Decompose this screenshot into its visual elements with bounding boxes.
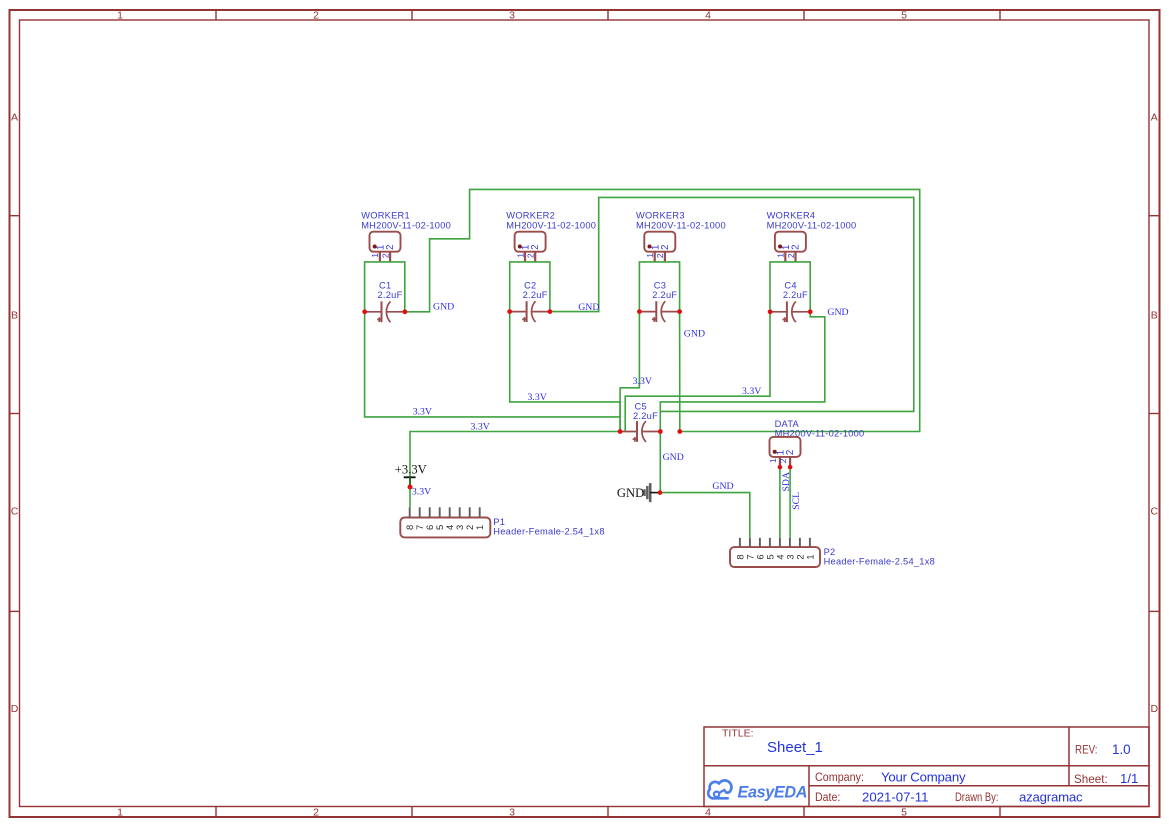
net label GND at P2 wire — [712, 481, 733, 492]
svg-text:Date:: Date: — [815, 790, 840, 804]
svg-text:C1: C1 — [379, 280, 391, 290]
svg-text:1: 1 — [117, 807, 123, 819]
svg-text:P2: P2 — [824, 547, 836, 557]
title block — [704, 727, 1149, 807]
svg-text:1: 1 — [768, 458, 778, 463]
wire GND net from C3 — [679, 312, 681, 432]
svg-text:Header-Female-2.54_1x8: Header-Female-2.54_1x8 — [493, 527, 604, 537]
svg-text:2: 2 — [785, 450, 796, 455]
power symbol +3.3V — [395, 463, 427, 487]
svg-text:C3: C3 — [654, 280, 666, 290]
net label GND at C5 — [663, 452, 684, 463]
net label GND at C4 — [827, 307, 848, 318]
svg-text:C5: C5 — [635, 402, 647, 412]
svg-text:2.2uF: 2.2uF — [633, 411, 658, 421]
svg-text:MH200V-11-02-1000: MH200V-11-02-1000 — [361, 221, 451, 231]
wire bus at WORKER4 pins — [770, 262, 810, 312]
svg-text:3.3V: 3.3V — [528, 392, 547, 403]
junction at C2 pin - — [548, 309, 553, 314]
junction at +3.3V node — [408, 485, 413, 490]
wire GND net from C5 to GND symbol and P2 pin 7 — [660, 432, 750, 538]
svg-text:GND: GND — [712, 481, 733, 492]
svg-text:Drawn By:: Drawn By: — [955, 790, 999, 804]
connector WORKER4 (MH200V-11-02-1000) — [767, 210, 857, 262]
net label 3.3V at C1 wire — [413, 407, 432, 418]
capacitor C2 2.2uF — [510, 280, 550, 322]
capacitor C5 2.2uF — [620, 402, 660, 442]
svg-text:2: 2 — [655, 253, 665, 258]
svg-text:Company:: Company: — [815, 770, 864, 784]
wire SCL from DATA pin 2 to P2 pin 3 — [789, 467, 791, 538]
svg-text:A: A — [11, 111, 18, 123]
wire bus at WORKER2 pins — [510, 262, 550, 312]
svg-text:5: 5 — [901, 807, 907, 819]
svg-text:WORKER3: WORKER3 — [636, 210, 685, 220]
junction at DATA pin 2 — [788, 465, 793, 470]
junction at DATA pin 1 — [778, 465, 783, 470]
svg-text:2.2uF: 2.2uF — [378, 290, 403, 300]
svg-text:B: B — [11, 309, 18, 321]
svg-text:2: 2 — [660, 244, 671, 249]
svg-text:2: 2 — [380, 253, 390, 258]
pin numbers of WORKER2 — [515, 244, 541, 258]
svg-text:1: 1 — [474, 525, 485, 530]
svg-text:Sheet:: Sheet: — [1074, 772, 1108, 786]
connector DATA (MH200V-11-02-1000) — [770, 419, 865, 467]
svg-text:C4: C4 — [784, 280, 796, 290]
pin numbers of P1 — [404, 525, 485, 530]
svg-text:4: 4 — [705, 807, 711, 819]
svg-text:3: 3 — [509, 807, 515, 819]
junction at C1 pin - — [403, 309, 408, 314]
svg-text:1: 1 — [776, 253, 786, 258]
svg-text:2: 2 — [786, 253, 796, 258]
wire 3.3V net from C3 — [620, 312, 639, 432]
svg-text:Your Company: Your Company — [881, 769, 966, 784]
svg-text:1/1: 1/1 — [1120, 771, 1138, 786]
net label 3.3V at C4 wire — [742, 386, 761, 397]
pin numbers of WORKER1 — [370, 244, 396, 258]
wire GND net from C4 — [660, 312, 825, 432]
capacitor C3 2.2uF — [639, 280, 679, 322]
svg-text:2: 2 — [526, 253, 536, 258]
net label 3.3V at P1 wire — [471, 421, 490, 432]
power symbol GND (ground) — [617, 483, 659, 502]
wire 3.3V net to P1 pin 8 — [410, 432, 620, 508]
EasyEDA logo — [708, 780, 807, 801]
svg-text:D: D — [1151, 703, 1159, 715]
svg-text:1: 1 — [645, 253, 655, 258]
wire 3.3V net from C1 — [365, 312, 620, 417]
wire GND net from C2 — [550, 197, 914, 411]
svg-text:3.3V: 3.3V — [742, 386, 761, 397]
svg-text:D: D — [11, 703, 19, 715]
capacitor C1 2.2uF — [365, 280, 405, 322]
connector WORKER1 (MH200V-11-02-1000) — [361, 210, 451, 262]
svg-text:1: 1 — [515, 253, 525, 258]
wire bus at WORKER3 pins — [639, 262, 679, 312]
pin numbers of DATA — [768, 450, 796, 464]
svg-text:MH200V-11-02-1000: MH200V-11-02-1000 — [506, 221, 596, 231]
svg-text:C2: C2 — [524, 280, 536, 290]
svg-text:3.3V: 3.3V — [633, 376, 652, 387]
svg-text:GND: GND — [578, 302, 599, 313]
svg-text:GND: GND — [827, 307, 848, 318]
svg-text:2.2uF: 2.2uF — [783, 290, 808, 300]
svg-text:WORKER4: WORKER4 — [767, 210, 816, 220]
svg-text:3: 3 — [509, 10, 515, 22]
svg-text:5: 5 — [901, 10, 907, 22]
net label 3.3V at +3.3V symbol — [412, 486, 431, 497]
svg-text:REV:: REV: — [1075, 743, 1098, 757]
net label SDA — [781, 472, 792, 492]
svg-text:3.3V: 3.3V — [412, 486, 431, 497]
wire 3.3V net from C2 — [510, 312, 620, 432]
svg-text:3.3V: 3.3V — [413, 407, 432, 418]
svg-text:4: 4 — [705, 10, 711, 22]
svg-text:WORKER2: WORKER2 — [506, 210, 555, 220]
wire SDA from DATA pin 1 to P2 pin 4 — [779, 467, 781, 538]
svg-text:2: 2 — [385, 244, 396, 249]
junction at C4 pin + — [768, 309, 773, 314]
wire 3.3V net from C4 — [625, 312, 770, 432]
svg-text:1: 1 — [370, 253, 380, 258]
pin numbers of P2 — [734, 554, 815, 559]
svg-text:GND: GND — [684, 329, 705, 340]
svg-text:C: C — [1151, 506, 1159, 518]
svg-text:1: 1 — [117, 10, 123, 22]
capacitor C4 2.2uF — [770, 280, 810, 322]
svg-text:EasyEDA: EasyEDA — [738, 783, 808, 801]
svg-text:P1: P1 — [493, 517, 505, 527]
svg-text:GND: GND — [433, 302, 454, 313]
net label SCL — [791, 492, 802, 510]
svg-text:SDA: SDA — [781, 472, 792, 492]
svg-text:Sheet_1: Sheet_1 — [767, 739, 823, 756]
junction at C3 pin + — [637, 309, 642, 314]
svg-text:GND: GND — [617, 486, 644, 500]
svg-text:2.2uF: 2.2uF — [523, 290, 548, 300]
junction at C2 pin + — [507, 309, 512, 314]
junction at C1 pin + — [362, 309, 367, 314]
svg-text:1: 1 — [804, 554, 815, 559]
pin numbers of WORKER4 — [776, 244, 802, 258]
connector P2 Header-Female-2.54_1x8 — [730, 538, 935, 567]
net label GND at C3 — [684, 329, 705, 340]
svg-text:TITLE:: TITLE: — [722, 728, 754, 740]
svg-text:2: 2 — [530, 244, 541, 249]
junction at C4 pin - — [808, 309, 813, 314]
svg-text:2021-07-11: 2021-07-11 — [862, 789, 928, 804]
svg-text:2: 2 — [313, 807, 319, 819]
junction GND bus at C3 — [677, 429, 682, 434]
connector P1 Header-Female-2.54_1x8 — [400, 507, 604, 537]
net label GND at C2 — [578, 302, 599, 313]
svg-text:azagramac: azagramac — [1019, 789, 1083, 804]
net label 3.3V at C2 wire — [528, 392, 547, 403]
pin numbers of WORKER3 — [645, 244, 671, 258]
svg-text:C: C — [11, 506, 19, 518]
junction at C3 pin - — [677, 309, 682, 314]
svg-text:Header-Female-2.54_1x8: Header-Female-2.54_1x8 — [824, 557, 935, 567]
svg-text:A: A — [1151, 111, 1158, 123]
svg-text:2: 2 — [791, 244, 802, 249]
connector WORKER3 (MH200V-11-02-1000) — [636, 210, 726, 262]
svg-text:MH200V-11-02-1000: MH200V-11-02-1000 — [767, 221, 857, 231]
junction at GND symbol node — [658, 490, 663, 495]
svg-text:SCL: SCL — [791, 492, 802, 510]
junction at C5 pin + (3.3V) — [618, 429, 623, 434]
junction at C5 pin - (GND) — [658, 429, 663, 434]
svg-text:GND: GND — [663, 452, 684, 463]
svg-text:1.0: 1.0 — [1112, 742, 1131, 757]
svg-text:3.3V: 3.3V — [471, 421, 490, 432]
net label GND at C1 — [433, 302, 454, 313]
svg-text:+3.3V: +3.3V — [395, 463, 427, 477]
svg-text:2: 2 — [778, 458, 788, 463]
svg-text:MH200V-11-02-1000: MH200V-11-02-1000 — [636, 221, 726, 231]
svg-text:2: 2 — [313, 10, 319, 22]
net label 3.3V at C3 wire — [633, 376, 652, 387]
wire bus at WORKER1 pins — [365, 262, 405, 312]
svg-text:2.2uF: 2.2uF — [652, 290, 677, 300]
connector WORKER2 (MH200V-11-02-1000) — [506, 210, 596, 262]
svg-text:WORKER1: WORKER1 — [361, 210, 410, 220]
wire GND net from C1 (top loop) — [405, 189, 920, 431]
svg-text:B: B — [1151, 309, 1158, 321]
